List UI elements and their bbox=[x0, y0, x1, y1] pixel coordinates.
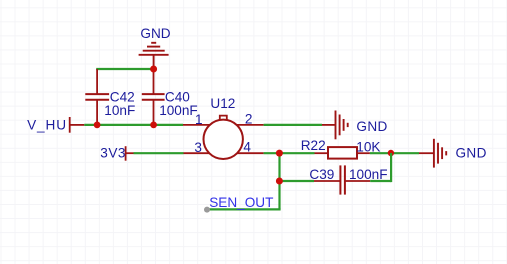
wire SEN_OUT horizontal bbox=[207, 208, 281, 210]
dangling end marker bbox=[204, 207, 210, 213]
resistor R22 bbox=[328, 147, 357, 159]
svg-text:R22: R22 bbox=[301, 138, 326, 153]
wire C39 right and up bbox=[370, 153, 391, 182]
capacitor C42 bbox=[85, 69, 109, 125]
svg-text:GND: GND bbox=[140, 26, 170, 41]
svg-text:10nF: 10nF bbox=[104, 103, 135, 118]
svg-text:2: 2 bbox=[245, 111, 253, 126]
IC U12 body bbox=[204, 116, 243, 159]
svg-text:3V3: 3V3 bbox=[100, 145, 126, 160]
wire net 3V3 bbox=[134, 152, 184, 154]
svg-text:3: 3 bbox=[194, 140, 202, 155]
wire pin2 to GND bbox=[264, 124, 335, 126]
svg-text:1: 1 bbox=[195, 112, 203, 127]
ground symbol GND top bbox=[139, 43, 169, 69]
svg-text:SEN_OUT: SEN_OUT bbox=[209, 195, 273, 210]
svg-text:U12: U12 bbox=[210, 96, 235, 111]
junction V_HU/C40 bbox=[150, 122, 157, 129]
ground symbol GND right row2 bbox=[434, 139, 446, 168]
ground symbol GND right row1 bbox=[336, 111, 348, 140]
svg-text:100nF: 100nF bbox=[159, 103, 198, 118]
wire SEN_OUT vertical branch bbox=[278, 153, 280, 209]
capacitor C39 bbox=[314, 165, 370, 194]
junction V_HU/C42 bbox=[94, 122, 101, 129]
junction R22/C39/GND bbox=[388, 150, 394, 156]
wire C39 left bbox=[280, 180, 315, 182]
pin 1 stub U12 bbox=[183, 124, 210, 126]
port 3V3 bbox=[126, 146, 134, 161]
wire junction to GND2 bbox=[391, 152, 433, 154]
capacitor C40 bbox=[142, 69, 165, 125]
wire R22 right to junction bbox=[357, 152, 391, 154]
wire jumper C42 top to C40 top bbox=[96, 68, 153, 70]
junction C40 top bbox=[150, 66, 157, 73]
svg-text:10K: 10K bbox=[356, 139, 380, 154]
svg-text:GND: GND bbox=[356, 119, 387, 134]
pin 2 stub U12 bbox=[237, 124, 264, 126]
svg-text:C39: C39 bbox=[309, 167, 334, 182]
junction C39 left branch bbox=[276, 178, 283, 185]
wire pin4 to R22 bbox=[264, 152, 328, 154]
svg-text:V_HU: V_HU bbox=[27, 117, 67, 132]
svg-text:GND: GND bbox=[456, 145, 487, 160]
port V_HU bbox=[70, 117, 85, 133]
svg-text:100nF: 100nF bbox=[349, 167, 388, 182]
wire net V_HU row bbox=[84, 124, 183, 126]
svg-text:4: 4 bbox=[243, 140, 251, 155]
pin 3 stub U12 bbox=[184, 152, 211, 154]
junction pin4/R22 bbox=[276, 150, 283, 157]
pin 4 stub U12 bbox=[237, 152, 264, 154]
